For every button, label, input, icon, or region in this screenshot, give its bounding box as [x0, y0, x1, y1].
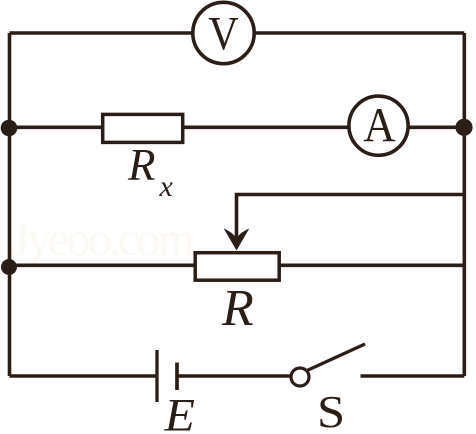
wire right rail — [462, 33, 466, 376]
junction node row2 right — [455, 119, 472, 136]
rheostat R wiper arrowhead — [224, 229, 250, 251]
wire row2 middle (Rx to ammeter) — [184, 126, 348, 130]
wire left rail — [8, 33, 12, 376]
wire row2 left (left node to Rx) — [10, 126, 103, 130]
switch S lever — [307, 344, 365, 371]
wire switch to right rail — [361, 374, 465, 378]
wire bottom left (left rail to battery) — [10, 374, 157, 378]
wire battery to switch — [178, 374, 290, 378]
wire top right (voltmeter to right rail) — [256, 31, 465, 35]
junction node row3 left — [1, 259, 17, 275]
svg-text:R: R — [221, 280, 254, 337]
wire top left (node to voltmeter) — [10, 31, 193, 35]
ammeter A1 circle — [349, 96, 408, 155]
svg-text:S: S — [317, 387, 345, 434]
svg-text:R: R — [127, 140, 156, 190]
switch S contact circle — [291, 368, 309, 386]
wire row3 left (left node to rheostat) — [10, 263, 196, 267]
resistor Rx body — [103, 114, 183, 142]
svg-text:E: E — [163, 390, 194, 434]
battery E short plate — [175, 363, 179, 391]
wire rheostat wiper to right rail — [237, 195, 465, 242]
voltmeter V1 circle — [193, 2, 254, 63]
wire row3 right (rheostat to right rail) — [280, 263, 464, 267]
svg-text:V: V — [208, 7, 239, 60]
svg-text:Jyeoo.com: Jyeoo.com — [11, 213, 195, 266]
battery E long plate — [155, 350, 158, 402]
junction node row2 left — [1, 120, 18, 137]
svg-text:x: x — [159, 170, 174, 203]
rheostat R body — [195, 253, 279, 281]
svg-text:A: A — [363, 98, 395, 152]
wire row2 right (ammeter to right node) — [410, 126, 465, 130]
